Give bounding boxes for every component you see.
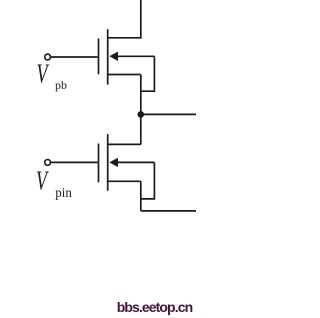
junction node dot <box>138 111 145 118</box>
wire M2 source to right edge <box>141 210 196 212</box>
svg-text:V: V <box>37 59 50 88</box>
svg-text:pb: pb <box>55 78 67 92</box>
wire M2 source horizontal <box>108 180 141 182</box>
wire gate M2 <box>51 161 98 163</box>
wire M1 bulk vertical <box>141 56 155 91</box>
wire M1 bulk horizontal <box>114 55 154 57</box>
wire M2 bulk vertical <box>141 162 155 199</box>
transistor M2 (bottom PMOS) gate terminal circle <box>45 160 51 166</box>
wire M1 source horizontal <box>108 74 141 76</box>
wire output node to right edge <box>141 113 196 115</box>
wire node to M2 drain <box>140 114 142 144</box>
transistor M1 (top PMOS) gate terminal circle <box>45 54 51 60</box>
transistor M1 gate bar <box>98 39 100 75</box>
wire M1 drain to top <box>108 0 141 38</box>
arrow M1 bulk (points left) <box>109 52 118 61</box>
wire M2 source vertical <box>140 181 142 211</box>
svg-text:pin: pin <box>55 184 72 200</box>
transistor M1 channel bar <box>107 29 109 84</box>
wire M2 drain horizontal <box>108 143 141 145</box>
svg-text:V: V <box>36 166 49 195</box>
arrow M2 bulk (points left) <box>109 158 118 167</box>
svg-text:bbs.eetop.cn: bbs.eetop.cn <box>117 299 193 315</box>
transistor M2 gate bar <box>98 144 100 183</box>
wire M2 bulk horizontal <box>114 161 154 163</box>
wire M1 source vertical to node <box>140 75 142 115</box>
transistor M2 channel bar <box>107 134 109 191</box>
wire gate M1 <box>51 56 98 58</box>
